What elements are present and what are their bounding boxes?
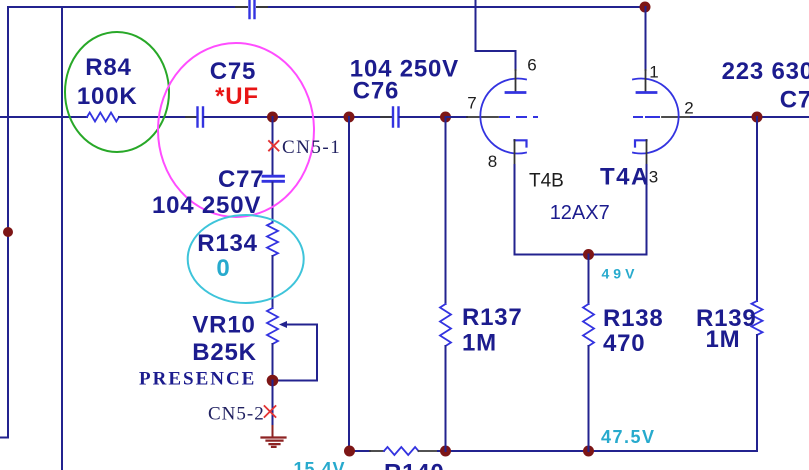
grid element T4A (dashed) — [634, 116, 659, 118]
wire T4A plate feed — [645, 7, 647, 70]
node feedback branch junction — [344, 112, 355, 123]
svg-text:C75: C75 — [210, 58, 256, 85]
connector mark CN5-1 — [269, 141, 279, 151]
wire C75 to C76 — [204, 116, 392, 118]
svg-text:8: 8 — [488, 152, 497, 171]
svg-text:1M: 1M — [706, 326, 741, 353]
svg-text:R137: R137 — [462, 304, 523, 331]
plate T4B — [506, 91, 525, 94]
svg-text:470: 470 — [603, 330, 645, 357]
wire bottom bus left — [349, 450, 370, 452]
svg-text:12AX7: 12AX7 — [550, 202, 610, 224]
resistor R134 — [267, 223, 278, 257]
pin stub C76 right — [400, 116, 412, 118]
capacitor C76 — [393, 108, 399, 127]
node top bus plate junction — [640, 2, 651, 13]
capacitor C-top — [250, 0, 255, 18]
node cathode junction — [583, 249, 594, 260]
svg-text:223 630V: 223 630V — [722, 58, 809, 85]
svg-text:R134: R134 — [197, 230, 258, 257]
connector mark CN5-2 — [265, 406, 276, 417]
resistor R140 — [384, 447, 419, 455]
pin 3 stub T4A cathode — [646, 140, 648, 165]
pin stub R140 right — [419, 450, 439, 452]
svg-text:T4B: T4B — [529, 171, 564, 192]
svg-text:47.5V: 47.5V — [601, 427, 656, 447]
potentiometer VR10 — [267, 308, 278, 344]
node VR10 wiper junction — [267, 375, 279, 387]
wire T4B cathode down — [514, 165, 516, 255]
capacitor C75 — [198, 108, 204, 127]
pin stub C76 left — [381, 116, 392, 118]
svg-text:R140: R140 — [384, 460, 445, 470]
cathode T4B — [515, 140, 527, 146]
svg-text:1: 1 — [649, 63, 658, 82]
svg-text:6: 6 — [527, 56, 536, 75]
svg-text:0: 0 — [216, 255, 229, 282]
wire top cap black stub left — [236, 6, 247, 8]
tube envelope T4B — [480, 79, 526, 154]
node bottom R138 junction — [583, 446, 594, 457]
pin stub C75 left — [186, 116, 196, 118]
wire grid T4B from node — [446, 116, 467, 118]
wire left vertical x=8 with bottom-left corner — [0, 7, 8, 438]
svg-text:1M: 1M — [462, 329, 497, 356]
wire VR10 wiper loop — [273, 325, 317, 381]
resistor R139 — [752, 301, 763, 335]
tube envelope T4A — [633, 79, 679, 154]
wire R139 branch bottom — [756, 335, 758, 451]
wire C76 to T4B grid — [400, 116, 447, 118]
svg-text:B25K: B25K — [192, 339, 257, 366]
wire top cap black stub right — [257, 6, 269, 8]
svg-text:2: 2 — [684, 99, 693, 118]
wire top bus left of C-top — [8, 6, 236, 8]
plate T4A — [637, 91, 656, 94]
node on left rail — [3, 227, 13, 237]
wire second vertical x=62 — [61, 7, 63, 470]
wire T4B plate feed from top bus — [476, 0, 516, 70]
capacitor C77 — [263, 176, 284, 181]
svg-text:PRESENCE: PRESENCE — [139, 369, 256, 390]
wire C77 to R134 — [272, 183, 274, 223]
cathode T4A — [635, 140, 647, 146]
resistor R137 — [440, 304, 451, 346]
wire R134 to VR10 — [272, 256, 274, 308]
wire node to CN5-2 — [272, 381, 274, 427]
svg-text:*UF: *UF — [215, 83, 259, 110]
wire main input to R84 — [0, 116, 87, 118]
wire R84 to C75 — [119, 116, 196, 118]
pin stub R140 left — [370, 450, 384, 452]
svg-text:3: 3 — [649, 168, 658, 187]
svg-text:104 250V: 104 250V — [152, 192, 261, 219]
pin 2 stub T4A grid — [662, 116, 691, 118]
wire VR10 bottom to node — [272, 344, 274, 381]
grid element T4B (dashed) — [500, 116, 537, 118]
svg-text:T4A: T4A — [600, 164, 650, 191]
wire C75 junction down to C77 — [272, 117, 274, 176]
wiper arrow VR10 — [279, 321, 287, 328]
wire R138 branch bottom — [588, 346, 590, 451]
svg-text:15.4V: 15.4V — [294, 459, 346, 470]
svg-text:49V: 49V — [602, 266, 639, 282]
pin 6 stub T4B plate — [515, 70, 517, 92]
node pin2 R139 junction — [752, 112, 763, 123]
wire R139 branch top — [756, 117, 758, 301]
highlight ellipse magenta C75 — [158, 43, 314, 217]
svg-text:C77: C77 — [218, 166, 264, 193]
node bottom R137 junction — [440, 446, 451, 457]
highlight ellipse cyan R134 — [188, 215, 304, 303]
pin 7 stub T4B grid — [467, 116, 498, 118]
node grid R137 junction — [440, 112, 451, 123]
node C75 output junction — [267, 112, 278, 123]
svg-text:C78: C78 — [780, 87, 809, 114]
wire T4A cathode down — [646, 165, 648, 255]
wire R137 branch bottom — [445, 346, 447, 451]
svg-text:R84: R84 — [85, 54, 131, 81]
wire bottom bus right — [438, 450, 757, 452]
wire pin2 to C78 branch — [691, 116, 809, 118]
wire cathode bus — [515, 254, 647, 256]
resistor R138 — [583, 304, 594, 346]
node bottom left junction — [344, 446, 355, 457]
svg-text:CN5-2: CN5-2 — [208, 403, 265, 424]
wire top bus right to T4A plate drop — [269, 6, 646, 8]
wire R138 branch top — [588, 255, 590, 305]
highlight ellipse green R84 — [65, 32, 169, 152]
svg-text:R138: R138 — [603, 305, 664, 332]
svg-text:VR10: VR10 — [192, 312, 255, 339]
wire R137 branch top — [445, 117, 447, 304]
svg-text:7: 7 — [467, 94, 476, 113]
svg-text:100K: 100K — [77, 83, 138, 110]
pin 8 stub T4B cathode — [514, 140, 516, 165]
resistor R84 — [87, 113, 119, 122]
wire CN5-2 to ground — [272, 426, 274, 438]
ground — [262, 438, 286, 447]
pin stub C75 right — [204, 116, 215, 118]
pin 1 stub T4A plate — [645, 70, 647, 92]
svg-text:C76: C76 — [353, 77, 399, 104]
svg-text:CN5-1: CN5-1 — [282, 137, 341, 158]
wire feedback branch down x=348 — [348, 117, 350, 451]
